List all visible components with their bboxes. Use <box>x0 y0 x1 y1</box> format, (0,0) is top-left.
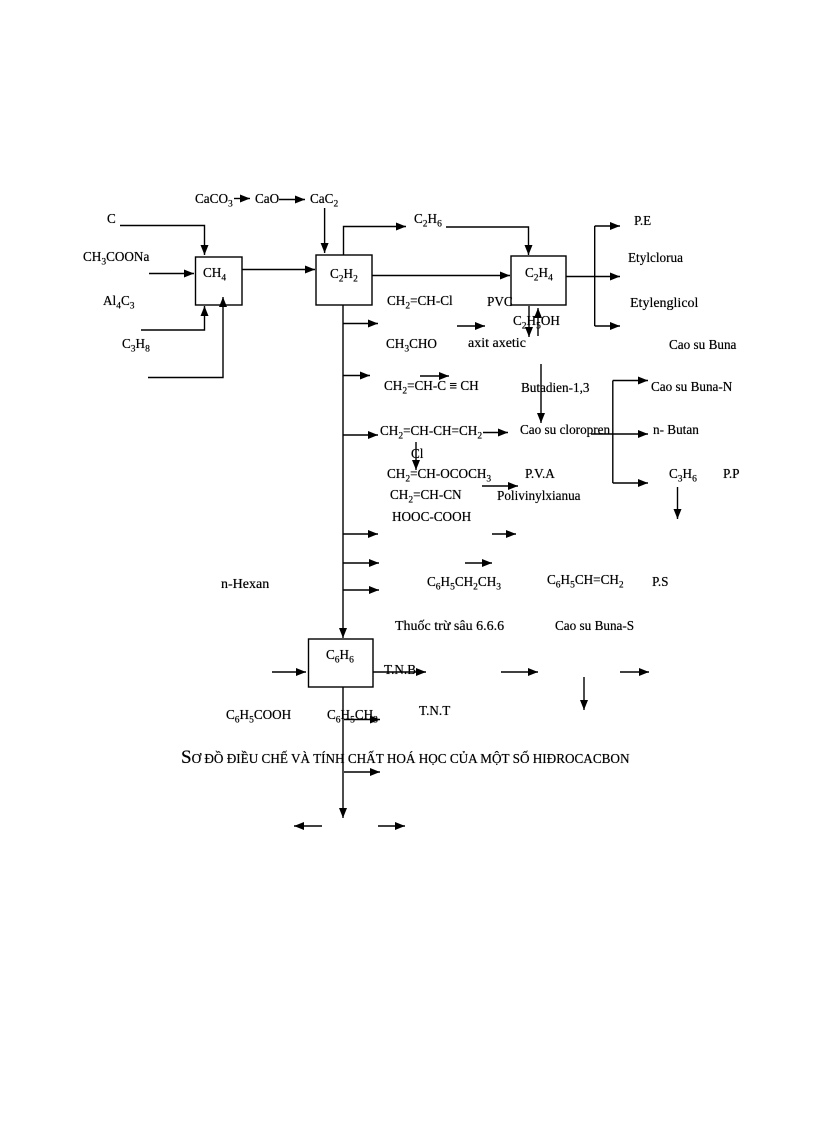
arrow C2H2 to C2H4 <box>372 275 510 277</box>
branch arrow row 5 <box>343 562 379 564</box>
label C6H6 in box <box>326 647 354 662</box>
box C6H6 <box>309 639 374 687</box>
arrow to Cao su Buna-N <box>613 380 648 382</box>
label n-Hexan <box>221 577 269 593</box>
label C <box>107 211 116 226</box>
label Al4C3 <box>103 293 134 308</box>
arrow to P.V.A <box>482 485 518 487</box>
label HOOC-COOH <box>392 509 471 524</box>
arrow through cloropren to n-Butan <box>591 433 648 435</box>
label C2H4 in box <box>525 265 553 280</box>
wire C2H6 over to C2H4 box top <box>446 227 529 255</box>
label P.S <box>652 574 669 589</box>
label Thuoc tru sau 6.6.6 <box>395 619 504 635</box>
label Cao su Buna <box>669 337 736 352</box>
label Cao su Buna-S <box>555 618 634 633</box>
label T.N.T <box>419 703 450 718</box>
wire C2H4 right to branch spine <box>566 276 595 278</box>
arrow down below Cao su Buna-S <box>583 677 585 710</box>
arrow to Etylclorua <box>595 276 620 278</box>
wire Al4C3 feed into CH4 box bottom <box>141 306 205 330</box>
label P.P <box>723 466 740 481</box>
label C2H2 in box <box>330 266 358 281</box>
label CaCO3 <box>195 191 233 206</box>
label CaO <box>255 191 279 206</box>
arrow overlapping title <box>344 771 380 773</box>
arrow C2H4 down to C2H5OH <box>528 306 530 337</box>
label C3H8 <box>122 336 150 351</box>
arrow CH3COONa into CH4 box left <box>149 273 194 275</box>
arrow CaCO3 to CaO <box>234 198 250 200</box>
arrow bottom left <box>294 825 322 827</box>
arrow row HOOC right <box>492 533 516 535</box>
arrow right of down arrow <box>620 671 649 673</box>
arrow over C≡CH <box>420 375 449 377</box>
label CH2=CH-C≡CH <box>384 378 479 393</box>
arrow C3H6 down <box>677 487 679 519</box>
wire main vertical C2H2 down into C6H6 box top <box>342 305 344 638</box>
label Butadien-1,3 <box>521 380 590 395</box>
arrow right of T.N.B <box>501 671 538 673</box>
wire CaC2 down into C2H2 box top <box>324 208 326 253</box>
label CH2=CH-CN <box>390 487 462 502</box>
label n-Butan <box>653 422 699 437</box>
label C6H5CH2CH3 <box>427 574 501 589</box>
label P.V.A <box>525 466 555 481</box>
label PVC <box>487 294 513 309</box>
wire C feed into CH4 box top <box>120 226 205 256</box>
arrow down through Butadien-1,3 to Cao su cloropren <box>540 364 542 423</box>
branch arrow row 6 <box>343 589 379 591</box>
wire right branch spine vertical <box>612 381 614 484</box>
label CH2=CH-Cl <box>387 293 453 308</box>
box C2H4 <box>511 256 566 305</box>
label C3H6 <box>669 466 697 481</box>
label Cao su Buna-N <box>651 379 732 394</box>
arrow C2H5OH up to C2H4 <box>537 308 539 336</box>
arrow CaO to CaC2 <box>279 199 305 201</box>
label T.N.B <box>384 662 416 677</box>
branch arrow row 2 <box>343 375 370 377</box>
label Cao su cloropren <box>520 422 610 437</box>
title <box>181 748 629 767</box>
arrow CH2=CH-CH=CH2 to Cao su cloropren <box>483 432 508 434</box>
label Cl <box>411 446 423 461</box>
label Polivinylxianua <box>497 488 581 503</box>
label axit axetic <box>468 336 526 352</box>
label C2H6 <box>414 211 442 226</box>
arrow to Etylenglicol <box>595 325 620 327</box>
arrow bottom right <box>378 825 405 827</box>
arrow CH3CHO to axit axetic row <box>457 325 485 327</box>
label P.E <box>634 213 651 228</box>
label C6H5CH=CH2 <box>547 572 624 587</box>
branch arrow row 3 to CH2=CH-CH=CH2 <box>343 434 378 436</box>
arrow CH4 to C2H2 <box>242 269 315 271</box>
box CH4 <box>196 257 243 305</box>
label CH3CHO <box>386 336 437 351</box>
arrow into C6H6 box left <box>272 671 306 673</box>
arrow over C6H5CH2CH3 <box>465 562 492 564</box>
wire branch spine vertical <box>594 226 596 326</box>
arrow to P.E <box>595 225 620 227</box>
box C2H2 <box>316 255 372 305</box>
wire C2H2 top up to C2H6 arrow <box>344 227 407 256</box>
label CH2=CH-OCOCH3 <box>387 466 491 481</box>
arrow through T.N.B <box>373 671 426 673</box>
wire C3H8 feed up through CH4 box bottom <box>148 297 223 378</box>
label C2H5OH <box>513 313 560 328</box>
arrow after C6H5CH3 <box>344 719 380 721</box>
branch arrow row 1 <box>343 323 378 325</box>
label C6H5CH3 <box>327 707 378 722</box>
label CaC2 <box>310 191 338 206</box>
label CH3COONa <box>83 249 149 264</box>
label Etylenglicol <box>630 296 698 312</box>
label CH4 in box <box>203 265 226 280</box>
branch arrow row 4 <box>343 533 378 535</box>
arrow Cl down <box>415 442 417 470</box>
label Etylclorua <box>628 250 683 265</box>
wire main vertical below C6H6 box <box>342 687 344 818</box>
arrow to C3H6 <box>613 482 648 484</box>
label CH2=CH-CH=CH2 <box>380 423 482 438</box>
label C6H5COOH <box>226 707 291 722</box>
